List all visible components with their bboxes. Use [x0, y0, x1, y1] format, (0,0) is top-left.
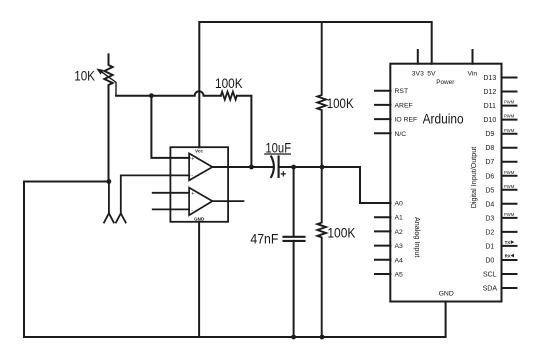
svg-text:10K: 10K [74, 68, 95, 83]
U2 pin 3V3 [412, 50, 424, 78]
wire U1B non-inverting stub [153, 192, 189, 194]
svg-text:+: + [191, 156, 194, 162]
wire U1B inverting stub [153, 208, 189, 210]
svg-text:D12: D12 [483, 89, 496, 96]
svg-text:N/C: N/C [395, 131, 407, 138]
op-amp U1A input polarity marks [191, 156, 194, 179]
wire U1 GND to ground rail [198, 222, 200, 337]
U2 pin D7 [485, 159, 516, 166]
wire C1 to A0 [279, 167, 376, 203]
svg-text:A5: A5 [395, 272, 404, 279]
wire R2 to output node [237, 96, 252, 167]
svg-text:5V: 5V [427, 71, 436, 78]
wire C1 junction down to C2 [293, 167, 295, 237]
node ground R4 junction [320, 335, 325, 340]
node C1 output junction [291, 165, 296, 170]
U2 pin AREF [375, 102, 413, 109]
U2 pin A0 [375, 201, 403, 208]
svg-text:Digital Input/Output: Digital Input/Output [469, 147, 478, 209]
node ground C2 junction [291, 335, 296, 340]
U2 pin IO REF [375, 117, 417, 124]
U2 pin A3 [375, 243, 403, 250]
svg-text:D1: D1 [485, 243, 494, 250]
op-amp U1A triangle [189, 153, 212, 180]
svg-text:RST: RST [395, 88, 409, 95]
svg-text:D3: D3 [485, 215, 494, 222]
svg-text:A0: A0 [395, 201, 404, 208]
svg-text:PWM: PWM [504, 212, 515, 217]
U2 pin D5 [485, 184, 516, 194]
svg-text:PWM: PWM [504, 100, 515, 105]
U2 pin D8 [485, 145, 516, 152]
svg-text:3V3: 3V3 [412, 71, 424, 78]
label C1 value 10uF [265, 140, 291, 155]
svg-text:PWM: PWM [504, 128, 515, 133]
U2 pin A2 [375, 229, 403, 236]
node feedback junction [149, 93, 154, 98]
U2 pin D11 [484, 100, 517, 110]
connector J1 pin 2 to U1A inverting input [116, 175, 189, 222]
svg-text:GND: GND [194, 216, 205, 221]
resistor R4 100K lower divider [317, 167, 326, 337]
svg-text:D4: D4 [485, 201, 494, 208]
wire C2 to ground rail [293, 241, 295, 337]
svg-text:100K: 100K [215, 76, 243, 91]
svg-text:47nF: 47nF [250, 231, 278, 246]
wire U1B output stub [212, 200, 243, 202]
resistor R2 100K feedback [221, 92, 237, 100]
U2 pin D3 [485, 212, 516, 222]
wire U1A output to C1 [212, 166, 273, 168]
svg-text:D8: D8 [485, 145, 494, 152]
svg-text:Analog Input: Analog Input [413, 217, 422, 257]
svg-text:D13: D13 [483, 75, 496, 82]
U2 pin D2 [485, 229, 516, 236]
capacitor C1 10uF electrolytic [271, 157, 285, 178]
svg-text:D0: D0 [485, 258, 494, 265]
U2 pin A1 [375, 215, 403, 222]
op-amp U1 package [170, 147, 228, 222]
node divider junction [320, 165, 325, 170]
node input junction [107, 179, 112, 184]
U2 pin A4 [375, 257, 403, 264]
svg-text:D2: D2 [485, 229, 494, 236]
U2 pin D12 [483, 89, 516, 96]
svg-text:IO REF: IO REF [395, 117, 418, 124]
U2 pin D9 [485, 128, 516, 138]
op-amp U1B triangle [189, 188, 212, 216]
svg-text:100K: 100K [327, 225, 355, 240]
svg-text:A4: A4 [395, 257, 404, 264]
U2 pin D1 TX [485, 240, 516, 251]
svg-text:TX: TX [505, 240, 511, 245]
U2 pin D4 [485, 201, 516, 208]
connector J1 pin 1 [104, 182, 114, 223]
U2 pin N/C [375, 131, 406, 138]
svg-text:Vin: Vin [467, 71, 477, 78]
svg-text:Power: Power [436, 79, 455, 86]
svg-text:PWM: PWM [504, 114, 515, 119]
arduino module U2 body [390, 64, 501, 302]
svg-text:D9: D9 [485, 131, 494, 138]
node feedback-output junction [249, 165, 254, 170]
svg-text:D7: D7 [485, 159, 494, 166]
wire ground rail [24, 182, 446, 338]
wire 5V rail from U1 VCC to Arduino 5V [199, 22, 431, 147]
svg-text:100K: 100K [327, 96, 354, 111]
potentiometer R1 10K [97, 54, 116, 181]
svg-text:A1: A1 [395, 215, 404, 222]
U2 pin D0 RX [485, 253, 516, 264]
svg-text:D11: D11 [484, 103, 496, 110]
wire R1 wiper to R2 with hop over VCC line [116, 91, 221, 95]
svg-text:SCL: SCL [483, 272, 497, 279]
svg-text:+: + [191, 191, 194, 197]
U2 pin A5 [375, 272, 403, 279]
svg-text:PWM: PWM [504, 170, 515, 175]
svg-text:Arduino: Arduino [423, 111, 464, 126]
svg-text:D6: D6 [485, 173, 494, 180]
U2 pin RST [375, 88, 408, 95]
svg-text:GND: GND [439, 291, 454, 298]
svg-text:A2: A2 [395, 229, 404, 236]
op-amp U1B input polarity marks [191, 191, 194, 214]
svg-text:A3: A3 [395, 243, 404, 250]
capacitor C2 47nF [284, 237, 305, 241]
svg-text:PWM: PWM [504, 184, 515, 189]
wire U1A non-inverting input [151, 96, 189, 158]
U2 pin SDA [483, 286, 517, 293]
svg-text:D10: D10 [483, 117, 496, 124]
svg-text:SDA: SDA [483, 286, 498, 293]
svg-text:10uF: 10uF [265, 140, 291, 155]
svg-text:D5: D5 [485, 187, 494, 194]
U2 pin SCL [483, 272, 517, 279]
U2 pin D13 [483, 75, 516, 82]
U2 pin D10 [483, 114, 516, 124]
U2 pin D6 [485, 170, 516, 180]
U2 pin Vin [467, 50, 477, 78]
svg-text:RX: RX [505, 253, 511, 258]
svg-text:AREF: AREF [395, 102, 413, 109]
resistor R3 100K upper divider [317, 22, 326, 167]
svg-text:Vcc: Vcc [195, 148, 203, 153]
